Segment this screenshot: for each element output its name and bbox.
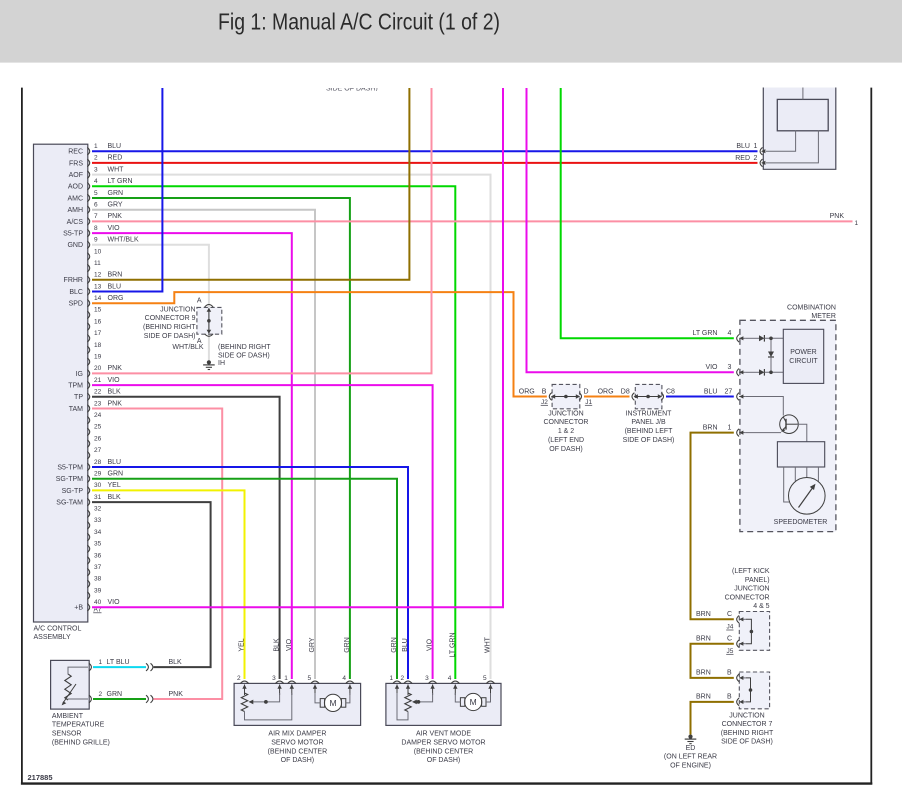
svg-text:SG-TAM: SG-TAM bbox=[56, 500, 83, 507]
wire pin1 to resistor bottom bbox=[397, 693, 408, 720]
svg-text:31: 31 bbox=[94, 494, 102, 501]
wire pin2 RED bbox=[92, 162, 758, 164]
svg-text:28: 28 bbox=[94, 459, 102, 466]
wire pin1 BLU bbox=[92, 150, 758, 152]
wire pin5 GRN to air mix motor pin4 bbox=[92, 198, 350, 679]
svg-text:37: 37 bbox=[94, 564, 102, 571]
svg-text:PNK: PNK bbox=[169, 691, 184, 698]
svg-text:D: D bbox=[584, 388, 589, 395]
svg-text:14: 14 bbox=[94, 295, 102, 302]
wiper wire pin3 bbox=[252, 693, 280, 702]
svg-text:ED: ED bbox=[686, 745, 696, 752]
svg-text:5: 5 bbox=[483, 675, 487, 682]
wire pin12 BRN to top of page bbox=[92, 88, 409, 280]
wire pin28 BLU to air vent motor pin2 bbox=[92, 467, 408, 679]
wire BRN junction connector 7 lower B to ground ED bbox=[691, 702, 734, 735]
wire pin21 VIO to air vent motor pin3 bbox=[92, 385, 433, 679]
svg-text:FRHR: FRHR bbox=[64, 277, 83, 284]
svg-text:AIR VENT MODE: AIR VENT MODE bbox=[416, 731, 471, 738]
svg-text:4: 4 bbox=[448, 675, 452, 682]
svg-text:BRN: BRN bbox=[696, 670, 711, 677]
svg-text:GRY: GRY bbox=[309, 637, 316, 652]
svg-text:3: 3 bbox=[425, 675, 429, 682]
svg-text:SENSOR: SENSOR bbox=[52, 731, 82, 738]
svg-text:1: 1 bbox=[754, 143, 758, 150]
svg-text:30: 30 bbox=[94, 482, 102, 489]
svg-text:S5-TPM: S5-TPM bbox=[57, 464, 83, 471]
wire pin27 to transistor bbox=[746, 397, 784, 416]
A/C control assembly box bbox=[34, 144, 88, 622]
svg-text:VIO: VIO bbox=[705, 364, 718, 371]
svg-text:VIO: VIO bbox=[427, 638, 434, 651]
junction connector 4 & 5 box bbox=[739, 612, 769, 651]
svg-text:3: 3 bbox=[728, 364, 732, 371]
internal wire to BLU pin1 bbox=[766, 131, 796, 152]
sensor pin 1 bbox=[89, 663, 91, 671]
svg-text:VIO: VIO bbox=[108, 599, 121, 606]
svg-text:4: 4 bbox=[94, 178, 98, 185]
svg-text:(BEHIND CENTER: (BEHIND CENTER bbox=[414, 748, 474, 755]
driver box leads bbox=[784, 467, 789, 502]
connector pin 2 bbox=[760, 159, 762, 167]
svg-text:BLU: BLU bbox=[108, 283, 122, 290]
wire BRN combination meter pin1 to junction connector 4&5 pin C/J4 bbox=[691, 433, 734, 620]
svg-text:11: 11 bbox=[94, 260, 101, 267]
thermistor arrow bbox=[63, 684, 76, 703]
svg-text:DAMPER SERVO MOTOR: DAMPER SERVO MOTOR bbox=[401, 740, 485, 747]
meter pin 3 connector bbox=[737, 369, 739, 377]
top right unit box bbox=[763, 88, 836, 170]
transistor Q1 bbox=[780, 415, 799, 434]
junction dot bbox=[769, 371, 773, 375]
svg-text:C: C bbox=[727, 611, 732, 618]
svg-text:PNK: PNK bbox=[108, 400, 123, 407]
wire BLU instrument panel J/B to combination meter pin27 bbox=[666, 396, 734, 398]
svg-text:PNK: PNK bbox=[108, 365, 123, 372]
svg-text:17: 17 bbox=[94, 330, 102, 337]
svg-text:D8: D8 bbox=[621, 388, 630, 395]
junction connector 1 & 2 bbox=[552, 384, 580, 408]
svg-text:22: 22 bbox=[94, 389, 102, 396]
svg-text:TPM: TPM bbox=[68, 383, 83, 390]
svg-text:ASSEMBLY: ASSEMBLY bbox=[34, 634, 72, 641]
speedometer gauge bbox=[789, 478, 826, 515]
junction connector 9 internal through-wire bbox=[208, 308, 210, 333]
svg-text:23: 23 bbox=[94, 400, 102, 407]
wire BRN junction connector J5 to junction connector 7 upper B bbox=[691, 644, 734, 678]
clipped label at top edge bbox=[326, 86, 378, 93]
svg-text:+B: +B bbox=[74, 605, 83, 612]
svg-text:SPD: SPD bbox=[69, 301, 83, 308]
svg-text:PNK: PNK bbox=[108, 213, 123, 220]
svg-text:ORG: ORG bbox=[108, 295, 124, 302]
svg-text:27: 27 bbox=[94, 447, 102, 454]
svg-text:LT BLU: LT BLU bbox=[107, 659, 130, 666]
svg-text:20: 20 bbox=[94, 365, 102, 372]
wire motor to pin5 bbox=[486, 693, 491, 702]
wire motor to pin4 bbox=[346, 693, 350, 703]
junction connector 4 & 5 internal link bbox=[746, 619, 752, 643]
svg-text:JUNCTION: JUNCTION bbox=[729, 712, 764, 719]
svg-text:AOD: AOD bbox=[68, 184, 83, 191]
svg-text:7: 7 bbox=[94, 213, 98, 220]
svg-text:1 & 2: 1 & 2 bbox=[558, 428, 574, 435]
ambient temperature sensor box bbox=[51, 660, 90, 709]
wire pin7 PNK to off-page connector 1 bbox=[92, 220, 853, 222]
svg-text:2: 2 bbox=[99, 691, 103, 698]
svg-text:9: 9 bbox=[94, 237, 98, 244]
svg-text:(LEFT END: (LEFT END bbox=[548, 437, 584, 444]
power circuit box bbox=[783, 329, 823, 383]
svg-text:OF DASH): OF DASH) bbox=[427, 757, 460, 764]
sensor pin 2 bbox=[89, 695, 91, 703]
svg-text:LT GRN: LT GRN bbox=[449, 632, 456, 657]
svg-text:6: 6 bbox=[94, 202, 98, 209]
svg-text:BRN: BRN bbox=[696, 611, 711, 618]
svg-text:AOF: AOF bbox=[69, 172, 83, 179]
svg-text:RED: RED bbox=[108, 155, 123, 162]
svg-text:JUNCTION: JUNCTION bbox=[160, 306, 195, 313]
internal wire to RED pin2 bbox=[766, 131, 818, 163]
svg-text:SG-TPM: SG-TPM bbox=[56, 476, 83, 483]
svg-text:BLK: BLK bbox=[169, 659, 183, 666]
svg-text:1: 1 bbox=[728, 424, 732, 431]
svg-text:GRN: GRN bbox=[108, 190, 124, 197]
svg-text:C8: C8 bbox=[666, 388, 675, 395]
svg-text:REC: REC bbox=[68, 149, 83, 156]
svg-text:BRN: BRN bbox=[108, 272, 123, 279]
svg-text:13: 13 bbox=[94, 283, 102, 290]
svg-text:4: 4 bbox=[342, 675, 346, 682]
wire pin9 WHT/BLK to ground IH bbox=[92, 245, 209, 361]
svg-text:1: 1 bbox=[94, 143, 98, 150]
svg-text:(BEHIND CENTER: (BEHIND CENTER bbox=[268, 748, 328, 755]
ground IH bbox=[207, 360, 211, 364]
svg-text:CONNECTOR: CONNECTOR bbox=[725, 594, 770, 601]
svg-text:GRN: GRN bbox=[107, 691, 123, 698]
svg-text:VIO: VIO bbox=[108, 225, 121, 232]
svg-text:SERVO MOTOR: SERVO MOTOR bbox=[271, 740, 323, 747]
wire pin4 LT GRN to air vent motor pin4 bbox=[92, 186, 455, 679]
air mix potentiometer bbox=[241, 693, 247, 712]
diode D1 (pin4 row) bbox=[746, 337, 759, 339]
svg-text:10: 10 bbox=[94, 248, 102, 255]
thermistor bbox=[65, 674, 71, 700]
air vent potentiometer bbox=[405, 693, 411, 712]
connector pin 1 bbox=[760, 147, 762, 155]
svg-text:4 & 5: 4 & 5 bbox=[753, 603, 769, 610]
svg-text:2: 2 bbox=[401, 675, 405, 682]
svg-text:SPEEDOMETER: SPEEDOMETER bbox=[774, 519, 828, 526]
diode D3 (vertical) bbox=[770, 338, 772, 351]
wire pin20 PNK to top of page bbox=[92, 88, 432, 373]
wire pin40 VIO to top of page bbox=[92, 88, 503, 607]
svg-text:OF DASH): OF DASH) bbox=[281, 757, 314, 764]
svg-text:PANEL J/B: PANEL J/B bbox=[631, 419, 666, 426]
svg-text:(BEHIND LEFT: (BEHIND LEFT bbox=[625, 428, 674, 435]
svg-text:8: 8 bbox=[94, 225, 98, 232]
svg-text:SIDE OF DASH): SIDE OF DASH) bbox=[144, 333, 196, 340]
svg-text:GRY: GRY bbox=[108, 202, 123, 209]
wire ORG junction connector to instrument panel J/B bbox=[584, 396, 630, 398]
svg-text:AMH: AMH bbox=[67, 207, 83, 214]
svg-text:(BEHIND RIGHT: (BEHIND RIGHT bbox=[143, 324, 196, 331]
svg-text:GRN: GRN bbox=[108, 471, 124, 478]
svg-text:WHT: WHT bbox=[485, 636, 492, 653]
air vent motor pins bbox=[393, 681, 401, 684]
svg-text:JUNCTION: JUNCTION bbox=[548, 410, 583, 417]
svg-text:B: B bbox=[727, 670, 732, 677]
svg-text:YEL: YEL bbox=[239, 638, 246, 651]
svg-text:GRN: GRN bbox=[344, 637, 351, 653]
air vent motor M bbox=[465, 693, 482, 710]
svg-text:(BEHIND GRILLE): (BEHIND GRILLE) bbox=[52, 739, 110, 746]
svg-text:WHT/BLK: WHT/BLK bbox=[108, 237, 139, 244]
svg-text:5: 5 bbox=[94, 190, 98, 197]
svg-text:ORG: ORG bbox=[519, 388, 535, 395]
wire pin3 WHT to air vent motor pin5 bbox=[92, 175, 491, 679]
wire pin22 BLK to air mix motor pin3 bbox=[92, 397, 280, 679]
svg-text:38: 38 bbox=[94, 576, 102, 583]
wiper wire pin3 bbox=[415, 693, 433, 702]
svg-text:(BEHIND RIGHT: (BEHIND RIGHT bbox=[721, 730, 774, 737]
svg-text:A/C CONTROL: A/C CONTROL bbox=[34, 625, 82, 632]
wire transistor to gauge driver bbox=[797, 424, 807, 442]
gauge driver box bbox=[777, 442, 824, 467]
svg-text:S5-TP: S5-TP bbox=[63, 231, 83, 238]
svg-text:3: 3 bbox=[94, 166, 98, 173]
svg-text:SIDE OF DASH): SIDE OF DASH) bbox=[623, 437, 675, 444]
svg-text:YEL: YEL bbox=[108, 482, 121, 489]
wire GRN sensor pin2 bbox=[93, 698, 146, 700]
combination meter box bbox=[740, 320, 836, 531]
svg-text:32: 32 bbox=[94, 506, 102, 513]
svg-text:IG: IG bbox=[76, 371, 83, 378]
svg-text:36: 36 bbox=[94, 552, 102, 559]
wire pin1 to transistor bbox=[746, 432, 781, 434]
svg-text:M: M bbox=[470, 697, 477, 707]
svg-text:12: 12 bbox=[94, 272, 102, 279]
wire LT GRN from top of page to combination meter pin4 bbox=[561, 88, 734, 338]
junction connector 7 internal link bbox=[746, 678, 751, 702]
svg-text:40: 40 bbox=[94, 599, 102, 606]
meter pin 27 connector bbox=[737, 393, 739, 401]
inline connector bbox=[146, 663, 148, 671]
svg-text:34: 34 bbox=[94, 529, 102, 536]
svg-text:217885: 217885 bbox=[28, 773, 53, 782]
top right unit inner box bbox=[777, 99, 828, 130]
svg-text:18: 18 bbox=[94, 342, 102, 349]
junction dot bbox=[769, 337, 773, 341]
svg-text:ORG: ORG bbox=[598, 388, 614, 395]
svg-text:CONNECTOR 9: CONNECTOR 9 bbox=[145, 315, 196, 322]
diagram border frame bbox=[21, 88, 23, 785]
svg-text:16: 16 bbox=[94, 318, 102, 325]
svg-text:OF ENGINE): OF ENGINE) bbox=[670, 762, 711, 769]
svg-text:COMBINATION: COMBINATION bbox=[787, 304, 836, 311]
svg-text:VIO: VIO bbox=[286, 638, 293, 651]
wire pin23 PNK to ambient temperature sensor bbox=[92, 409, 222, 700]
svg-text:2: 2 bbox=[94, 155, 98, 162]
svg-text:PNK: PNK bbox=[830, 213, 845, 220]
svg-text:BLK: BLK bbox=[274, 638, 281, 652]
svg-text:Fig 1: Manual A/C Circuit (1 o: Fig 1: Manual A/C Circuit (1 of 2) bbox=[218, 9, 500, 35]
svg-text:21: 21 bbox=[94, 377, 102, 384]
svg-text:BLK: BLK bbox=[108, 494, 122, 501]
svg-text:1: 1 bbox=[284, 675, 288, 682]
svg-text:INSTRUMENT: INSTRUMENT bbox=[626, 410, 673, 417]
wire pin5 to motor bbox=[315, 693, 320, 703]
svg-text:GND: GND bbox=[67, 242, 83, 249]
svg-text:BLK: BLK bbox=[108, 389, 122, 396]
svg-text:OF DASH): OF DASH) bbox=[549, 446, 582, 453]
wire pin4 to motor bbox=[455, 693, 460, 702]
wire pin1 to resistor bottom bbox=[245, 693, 292, 720]
svg-text:J5: J5 bbox=[727, 648, 734, 655]
svg-text:3: 3 bbox=[272, 675, 276, 682]
svg-text:2: 2 bbox=[754, 155, 758, 162]
svg-text:33: 33 bbox=[94, 517, 102, 524]
svg-text:J2: J2 bbox=[541, 399, 548, 406]
svg-text:AMC: AMC bbox=[67, 195, 83, 202]
svg-text:1: 1 bbox=[99, 659, 103, 666]
svg-text:J1: J1 bbox=[585, 399, 592, 406]
svg-text:29: 29 bbox=[94, 471, 102, 478]
svg-text:SIDE OF DASH): SIDE OF DASH) bbox=[721, 739, 773, 746]
svg-text:BLC: BLC bbox=[69, 289, 83, 296]
air mix motor M bbox=[324, 694, 341, 711]
svg-text:TAM: TAM bbox=[69, 406, 83, 413]
wire pin6 GRY to air mix motor pin5 bbox=[92, 210, 315, 679]
svg-text:BLU: BLU bbox=[108, 143, 122, 150]
svg-text:1: 1 bbox=[390, 675, 394, 682]
wire pin29 GRN to air vent motor pin1 bbox=[92, 479, 397, 679]
diode D2 (pin3 row) bbox=[746, 371, 759, 373]
title bar bbox=[0, 0, 902, 63]
svg-text:BLU: BLU bbox=[736, 143, 750, 150]
svg-text:CONNECTOR: CONNECTOR bbox=[544, 419, 589, 426]
svg-text:RED: RED bbox=[735, 155, 750, 162]
svg-text:SIDE OF DASH): SIDE OF DASH) bbox=[218, 353, 270, 360]
svg-text:A: A bbox=[197, 297, 202, 304]
wire LT BLU sensor pin1 bbox=[93, 666, 146, 668]
svg-text:25: 25 bbox=[94, 424, 102, 431]
svg-text:VIO: VIO bbox=[108, 377, 121, 384]
wire internal stub bbox=[802, 88, 804, 100]
svg-text:(ON LEFT REAR: (ON LEFT REAR bbox=[664, 754, 717, 761]
svg-text:B: B bbox=[727, 694, 732, 701]
svg-text:24: 24 bbox=[94, 412, 102, 419]
air vent mode damper servo motor box bbox=[386, 683, 501, 725]
svg-text:B: B bbox=[542, 388, 547, 395]
svg-text:LT GRN: LT GRN bbox=[108, 178, 133, 185]
svg-text:METER: METER bbox=[811, 313, 836, 320]
junction connector 7 box bbox=[739, 672, 769, 709]
air mix damper servo motor box bbox=[234, 683, 361, 725]
wire pin8 VIO to air mix motor pin1 bbox=[92, 233, 292, 679]
svg-text:2: 2 bbox=[237, 675, 241, 682]
svg-text:WHT: WHT bbox=[108, 166, 125, 173]
svg-text:BRN: BRN bbox=[703, 424, 718, 431]
svg-text:J4: J4 bbox=[727, 624, 734, 631]
svg-text:TP: TP bbox=[74, 394, 83, 401]
svg-text:BLU: BLU bbox=[402, 638, 409, 652]
svg-text:5: 5 bbox=[308, 675, 312, 682]
svg-text:LT GRN: LT GRN bbox=[692, 330, 717, 337]
svg-text:CIRCUIT: CIRCUIT bbox=[789, 358, 818, 365]
svg-text:JUNCTION: JUNCTION bbox=[734, 586, 769, 593]
wire pin14 ORG to junction connector 1&2 bbox=[92, 292, 547, 396]
svg-text:A/CS: A/CS bbox=[67, 219, 84, 226]
svg-text:AIR MIX DAMPER: AIR MIX DAMPER bbox=[268, 731, 326, 738]
svg-text:CONNECTOR 7: CONNECTOR 7 bbox=[722, 721, 773, 728]
svg-text:BRN: BRN bbox=[696, 636, 711, 643]
svg-text:BLU: BLU bbox=[704, 388, 718, 395]
wire pin31 BLK to ambient temperature sensor bbox=[92, 502, 211, 667]
svg-text:BRN: BRN bbox=[696, 694, 711, 701]
svg-text:AMBIENT: AMBIENT bbox=[52, 713, 84, 720]
svg-text:PANEL): PANEL) bbox=[745, 577, 770, 584]
ground ED bbox=[688, 735, 692, 739]
inline connector bbox=[146, 695, 148, 703]
svg-text:(LEFT KICK: (LEFT KICK bbox=[732, 568, 770, 575]
svg-text:15: 15 bbox=[94, 307, 102, 314]
svg-text:TEMPERATURE: TEMPERATURE bbox=[52, 722, 105, 729]
svg-text:39: 39 bbox=[94, 587, 102, 594]
svg-text:26: 26 bbox=[94, 435, 102, 442]
svg-text:19: 19 bbox=[94, 354, 102, 361]
svg-text:BLU: BLU bbox=[108, 459, 122, 466]
meter pin 4 connector bbox=[737, 335, 739, 343]
svg-text:35: 35 bbox=[94, 541, 102, 548]
A/C control assembly connector pins 1-40 bbox=[87, 147, 89, 155]
svg-text:C: C bbox=[727, 636, 732, 643]
svg-text:(BEHIND RIGHT: (BEHIND RIGHT bbox=[218, 344, 271, 351]
instrument panel J/B connector bbox=[635, 384, 662, 408]
air mix motor pins bbox=[240, 681, 248, 684]
meter pin 1 connector bbox=[737, 429, 739, 437]
svg-text:4: 4 bbox=[728, 330, 732, 337]
wire pin13 BLU to top of page bbox=[92, 88, 162, 292]
svg-text:POWER: POWER bbox=[790, 349, 816, 356]
svg-text:1: 1 bbox=[855, 220, 859, 227]
svg-text:27: 27 bbox=[725, 388, 733, 395]
wire pin30 YEL to air mix motor pin2 bbox=[92, 490, 245, 679]
svg-text:FRS: FRS bbox=[69, 160, 83, 167]
svg-text:WHT/BLK: WHT/BLK bbox=[172, 344, 203, 351]
wire VIO from top of page to combination meter pin3 bbox=[527, 88, 734, 372]
svg-text:SG-TP: SG-TP bbox=[62, 488, 84, 495]
svg-text:IH: IH bbox=[218, 360, 225, 367]
svg-text:GRN: GRN bbox=[391, 637, 398, 653]
svg-text:M: M bbox=[329, 698, 336, 708]
